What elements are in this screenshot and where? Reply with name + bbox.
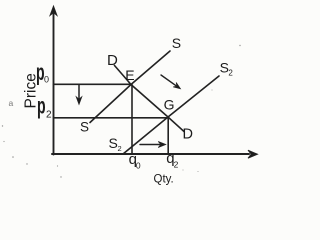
svg-text:S: S bbox=[172, 35, 181, 51]
svg-text:0: 0 bbox=[44, 75, 49, 85]
svg-text:2: 2 bbox=[228, 69, 233, 78]
svg-text:2: 2 bbox=[174, 159, 179, 169]
svg-text:p: p bbox=[37, 93, 46, 120]
svg-text:D: D bbox=[107, 52, 118, 69]
diagonal arrow (supply shift) bbox=[161, 75, 181, 89]
svg-text:E: E bbox=[125, 67, 134, 83]
y-axis (Price) bbox=[50, 6, 57, 155]
svg-text:S: S bbox=[109, 135, 118, 151]
supply curve S2 bbox=[123, 76, 219, 154]
svg-text:D: D bbox=[183, 127, 193, 143]
quantity line q2 bbox=[167, 117, 169, 154]
price line p2 bbox=[54, 117, 169, 119]
horizontal arrow (quantity rise) bbox=[140, 142, 166, 148]
svg-text:Qty.: Qty. bbox=[154, 173, 174, 185]
x-axis (Qty) bbox=[52, 150, 258, 158]
svg-text:2: 2 bbox=[46, 109, 52, 120]
svg-text:S: S bbox=[80, 120, 89, 135]
price line p0 bbox=[54, 83, 132, 85]
svg-text:a: a bbox=[9, 98, 14, 108]
supply curve S bbox=[90, 51, 170, 123]
svg-text:G: G bbox=[164, 96, 175, 112]
svg-text:2: 2 bbox=[118, 144, 122, 153]
svg-text:0: 0 bbox=[136, 161, 141, 171]
scan noise specks bbox=[2, 45, 241, 178]
demand curve D bbox=[115, 66, 185, 132]
down arrow (price fall) bbox=[76, 85, 82, 105]
quantity line q0 bbox=[131, 85, 133, 154]
